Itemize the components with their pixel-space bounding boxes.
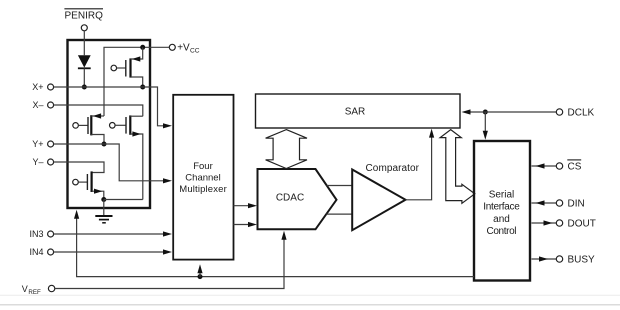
transistor Q1 xyxy=(111,47,143,87)
SAR block xyxy=(256,94,461,128)
wire Y- to Q4 xyxy=(54,162,104,173)
transistor Q3 xyxy=(110,115,143,199)
svg-text:Interface: Interface xyxy=(483,202,520,213)
wire +VCC rail xyxy=(104,47,169,116)
svg-text:SAR: SAR xyxy=(345,107,366,118)
svg-text:IN3: IN3 xyxy=(29,229,43,239)
serial label xyxy=(483,189,520,237)
wire mux to CDAC lower xyxy=(234,222,258,227)
wire DCLK to SAR xyxy=(462,109,486,114)
wire control to switch block xyxy=(74,210,474,277)
svg-text:Comparator: Comparator xyxy=(366,163,420,174)
wire X- to Q3 xyxy=(54,105,143,116)
svg-text:DCLK: DCLK xyxy=(568,108,595,119)
wire VREF to CDAC xyxy=(55,231,287,289)
terminal IN4 xyxy=(29,247,53,257)
node DCLK junction xyxy=(483,110,488,115)
bus arrow SAR-serial xyxy=(440,130,475,204)
wire PENIRQ to diode xyxy=(83,31,85,55)
svg-text:CS: CS xyxy=(568,162,582,173)
terminal DCLK xyxy=(556,108,594,119)
terminal Y+ xyxy=(32,139,53,149)
svg-text:+V: +V xyxy=(177,42,190,53)
svg-text:Multiplexer: Multiplexer xyxy=(179,184,227,195)
wire CDAC to comparator lower xyxy=(326,213,351,215)
mux block xyxy=(173,95,233,260)
wire mux to CDAC upper xyxy=(234,203,258,208)
node control mux junction xyxy=(198,274,203,279)
svg-text:Y–: Y– xyxy=(32,157,43,167)
terminal X+ xyxy=(32,82,53,92)
terminal DOUT xyxy=(556,219,596,230)
transistor Q4 xyxy=(73,171,104,199)
wire IN3 to mux xyxy=(54,231,172,236)
node X+ Q1 junction xyxy=(140,85,145,90)
wire DCLK to serial xyxy=(483,112,488,140)
node ground junction xyxy=(101,197,106,202)
wire BUSY output xyxy=(532,256,557,261)
transistor Q2 xyxy=(73,113,104,144)
page rule faint upper xyxy=(0,294,620,296)
svg-text:IN4: IN4 xyxy=(29,247,43,257)
svg-text:and: and xyxy=(493,214,510,225)
terminal BUSY xyxy=(556,255,595,266)
mux label xyxy=(179,161,227,195)
wire X+ to mux xyxy=(54,87,172,128)
wire DOUT output xyxy=(532,220,557,225)
terminal CS xyxy=(556,160,581,173)
bus arrow SAR-CDAC xyxy=(266,130,307,169)
ground xyxy=(95,200,112,223)
diode D1 xyxy=(78,55,91,87)
svg-text:BUSY: BUSY xyxy=(568,255,596,266)
svg-text:Four: Four xyxy=(193,161,213,172)
wire Q3 source to ground node xyxy=(104,199,143,201)
switch block xyxy=(68,40,151,208)
node VCC Q1 drain xyxy=(140,45,145,50)
terminal VREF xyxy=(22,284,55,296)
wire CDAC to comparator upper xyxy=(327,185,352,187)
svg-text:DIN: DIN xyxy=(568,199,585,210)
svg-text:Control: Control xyxy=(487,226,517,237)
svg-text:X–: X– xyxy=(32,100,43,110)
terminal +VCC xyxy=(169,42,199,54)
svg-text:Channel: Channel xyxy=(185,172,220,183)
terminal IN3 xyxy=(29,229,53,239)
CDAC block xyxy=(258,169,337,229)
wire Y+ to mux xyxy=(54,144,172,183)
wire DCLK terminal xyxy=(485,111,556,113)
terminal PENIRQ xyxy=(64,9,103,31)
svg-text:REF: REF xyxy=(28,289,41,296)
wire CS input xyxy=(532,163,557,168)
svg-text:X+: X+ xyxy=(32,82,43,92)
svg-text:CDAC: CDAC xyxy=(276,193,304,204)
svg-text:V: V xyxy=(22,284,28,294)
wire control to mux xyxy=(197,264,202,276)
wire DIN input xyxy=(532,200,557,205)
node Y+ Q2 junction xyxy=(102,142,107,147)
serial block xyxy=(474,141,530,281)
page rule faint lower xyxy=(0,304,620,306)
wire comparator output to SAR xyxy=(406,129,435,200)
terminal X- xyxy=(32,100,53,110)
node X+ diode junction xyxy=(82,85,87,90)
svg-text:CC: CC xyxy=(190,47,200,54)
comparator U1 xyxy=(352,170,405,231)
svg-text:DOUT: DOUT xyxy=(568,219,596,230)
wire IN4 to mux xyxy=(54,249,172,254)
terminal DIN xyxy=(556,199,584,210)
svg-text:Y+: Y+ xyxy=(32,139,43,149)
svg-text:Serial: Serial xyxy=(489,189,515,200)
terminal Y- xyxy=(32,157,53,167)
svg-text:PENIRQ: PENIRQ xyxy=(64,10,103,21)
